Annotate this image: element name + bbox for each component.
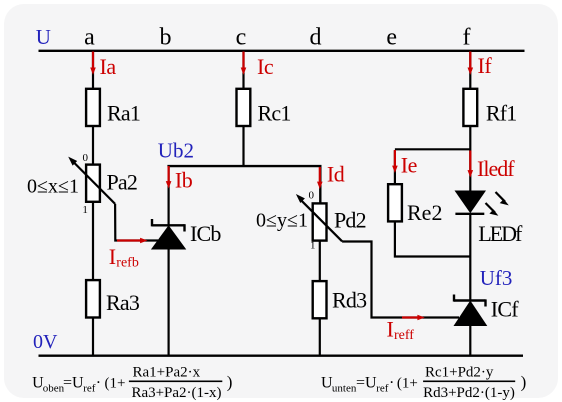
svg-text:I: I xyxy=(387,317,394,342)
wire Ub2 down to ICb xyxy=(168,165,170,226)
wire LED to ICf xyxy=(469,214,471,302)
wire bottom rail 0V xyxy=(39,355,524,357)
resistor Ra3 xyxy=(86,280,100,317)
svg-text:U: U xyxy=(36,25,51,49)
wire branch a vertical top xyxy=(92,51,94,89)
svg-text:If: If xyxy=(478,53,493,78)
shunt regulator ICb cathode bar xyxy=(152,219,185,232)
svg-text:I: I xyxy=(109,244,116,269)
resistor Ra1 xyxy=(86,89,100,126)
potentiometer Pd2 wiper arrow xyxy=(296,194,342,241)
svg-text:Pd2: Pd2 xyxy=(334,208,366,233)
LED light arrow 1 xyxy=(496,192,509,205)
svg-text:1: 1 xyxy=(82,204,88,216)
svg-text:refb: refb xyxy=(116,255,139,270)
wire Rf1 to LED xyxy=(469,127,471,191)
formula U_unten xyxy=(321,365,526,401)
shunt regulator ICf triangle xyxy=(454,301,488,327)
svg-text:·: · xyxy=(389,375,394,392)
LED LEDf triangle xyxy=(455,191,487,214)
svg-text:(1+: (1+ xyxy=(105,376,126,392)
wire branch c vertical xyxy=(242,51,244,89)
svg-text:a: a xyxy=(84,24,95,50)
svg-text:Rd3+Pd2·(1-y): Rd3+Pd2·(1-y) xyxy=(423,385,515,401)
current arrow If xyxy=(468,52,474,75)
current arrow Ia xyxy=(90,52,96,75)
svg-text:0: 0 xyxy=(83,152,89,164)
resistor Rc1 xyxy=(237,89,251,126)
LED LEDf cathode bar xyxy=(455,213,484,215)
svg-text:0≤y≤1: 0≤y≤1 xyxy=(256,210,308,232)
svg-text:1: 1 xyxy=(310,240,316,252)
wire e branch top xyxy=(394,150,396,184)
svg-text:Iledf: Iledf xyxy=(477,156,515,181)
wire Rc1 to Ub2 line xyxy=(242,127,244,166)
wire Pa2 wiper to ICb ref xyxy=(115,204,158,241)
wire ICf anode to 0V rail xyxy=(469,326,471,356)
wire Pd2 wiper to ICf ref xyxy=(342,242,459,318)
svg-text:Pa2: Pa2 xyxy=(107,170,138,195)
svg-text:Ia: Ia xyxy=(100,54,117,79)
svg-text:=U: =U xyxy=(63,375,84,392)
svg-text:Ub2: Ub2 xyxy=(158,139,194,163)
svg-text:Id: Id xyxy=(327,161,345,186)
svg-text:Rc1+Pd2·y: Rc1+Pd2·y xyxy=(425,365,494,381)
wire Re2 bottom to f branch xyxy=(395,223,470,257)
svg-text:0: 0 xyxy=(308,190,314,202)
wire Ra3 to 0V rail xyxy=(92,319,94,356)
svg-text:e: e xyxy=(386,24,397,50)
svg-text:0V: 0V xyxy=(33,331,58,353)
current arrow Id xyxy=(317,167,323,189)
LED light arrow 2 xyxy=(486,203,499,216)
svg-text:ICb: ICb xyxy=(190,221,221,246)
svg-text:ref: ref xyxy=(376,382,389,394)
svg-text:reff: reff xyxy=(394,328,414,343)
svg-text:Ic: Ic xyxy=(257,54,274,79)
svg-text:Rc1: Rc1 xyxy=(258,101,291,126)
wire top rail U xyxy=(39,50,525,52)
svg-text:LEDf: LEDf xyxy=(478,221,523,246)
current arrow Ib xyxy=(166,166,172,189)
svg-text:Ie: Ie xyxy=(401,153,417,178)
svg-text:Ra3: Ra3 xyxy=(106,290,140,315)
svg-text:): ) xyxy=(521,372,527,391)
svg-text:Ra1: Ra1 xyxy=(107,101,140,126)
current arrow Iledf xyxy=(468,151,474,178)
resistor Re2 xyxy=(388,184,402,221)
wire Ra1 to Pa2 xyxy=(92,127,94,165)
svg-text:): ) xyxy=(227,372,233,391)
potentiometer Pa2 body xyxy=(86,165,100,202)
wire branch f vertical top xyxy=(469,51,471,89)
potentiometer Pa2 wiper arrow xyxy=(68,157,115,204)
svg-text:Ra3+Pa2·(1-x): Ra3+Pa2·(1-x) xyxy=(131,385,221,401)
svg-text:f: f xyxy=(463,24,471,50)
formula U_oben xyxy=(32,365,232,401)
svg-text:(1+: (1+ xyxy=(397,376,418,392)
current arrow Irefb xyxy=(117,238,148,244)
svg-text:c: c xyxy=(236,24,247,50)
current arrow Ic xyxy=(241,52,247,75)
svg-text:Ra1+Pa2·x: Ra1+Pa2·x xyxy=(132,365,200,381)
svg-text:Rd3: Rd3 xyxy=(332,288,367,313)
svg-text:·: · xyxy=(96,375,101,392)
wire e to f junction top xyxy=(395,148,470,150)
svg-text:d: d xyxy=(310,24,322,50)
svg-text:unten: unten xyxy=(332,382,357,394)
shunt regulator ICb triangle xyxy=(151,225,186,249)
current arrow Ireff xyxy=(402,315,425,321)
svg-text:ref: ref xyxy=(83,382,96,394)
wire Rd3 to 0V rail xyxy=(319,319,321,356)
wire ICb anode to 0V rail xyxy=(168,249,170,356)
wire Pa2 to Ra3 xyxy=(92,203,94,281)
svg-text:ICf: ICf xyxy=(491,297,519,322)
potentiometer Pd2 body xyxy=(313,203,327,240)
wire Ub2 node line xyxy=(167,166,320,203)
current arrow Ie xyxy=(392,150,398,173)
svg-text:Uf3: Uf3 xyxy=(480,266,513,290)
svg-text:=U: =U xyxy=(356,375,377,392)
shunt regulator ICf cathode bar xyxy=(454,295,486,307)
wire Pd2 to Rd3 xyxy=(319,242,321,281)
resistor Rf1 xyxy=(463,89,477,126)
svg-text:oben: oben xyxy=(43,382,65,394)
svg-text:Re2: Re2 xyxy=(407,200,442,225)
svg-text:Ib: Ib xyxy=(175,167,193,192)
svg-text:b: b xyxy=(160,24,172,50)
svg-text:0≤x≤1: 0≤x≤1 xyxy=(27,176,79,198)
resistor Rd3 xyxy=(313,281,327,318)
svg-text:Rf1: Rf1 xyxy=(486,101,517,126)
